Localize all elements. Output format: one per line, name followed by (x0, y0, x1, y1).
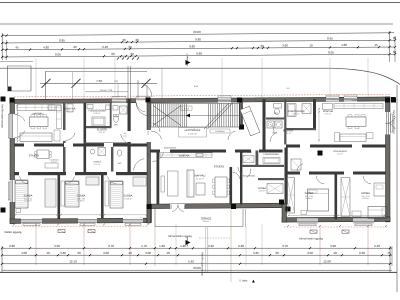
svg-text:Korrlátpa: Korrlátpa (216, 130, 226, 133)
kitchen counter left (17, 105, 61, 111)
bottom ticks A (1, 247, 3, 249)
wc2 fixtures (117, 150, 122, 156)
svg-text:9.89 m²: 9.89 m² (259, 190, 266, 193)
bottom left terminator (1, 246, 3, 272)
svg-text:3.00: 3.00 (145, 251, 151, 255)
wardrobe col room3 (105, 181, 109, 206)
door arcs centre rooms (247, 169, 251, 178)
interior dim line right bedrooms (288, 215, 385, 217)
svg-text:NAPPALI: NAPPALI (195, 175, 206, 178)
pillar block (286, 207, 291, 212)
wall bedroom part 1 left (58, 175, 61, 219)
kitchen counter centre (160, 153, 212, 157)
svg-text:9.80: 9.80 (189, 44, 195, 48)
svg-text:30: 30 (128, 45, 132, 49)
dim ticks row1 (1, 34, 3, 36)
svg-text:77.0866: 77.0866 (239, 280, 248, 283)
svg-text:4.20 m²: 4.20 m² (337, 152, 344, 155)
klima unit (58, 230, 65, 233)
svg-text:45: 45 (374, 43, 378, 47)
svg-text:ZÁROLÓ: ZÁROLÓ (242, 151, 252, 154)
wc fixture left (114, 116, 119, 122)
wall bedroom part 2 left (101, 175, 104, 219)
interior dim vertical left living (17, 105, 19, 142)
boiler box (106, 105, 111, 110)
wall tusolo-wc divider (111, 145, 113, 172)
forecourt outline (46, 72, 148, 100)
dim ticks row4 (1, 56, 3, 58)
svg-text:beltéri egység: beltéri egység (5, 231, 22, 234)
wc right room (274, 104, 282, 109)
dim row 3 line (2, 47, 394, 50)
sofa right bottom (340, 134, 366, 142)
small room fixtures (267, 184, 283, 194)
svg-text:30: 30 (275, 251, 279, 255)
svg-text:ÉTKEZŐ: ÉTKEZŐ (29, 154, 39, 158)
svg-text:29.00: 29.00 (193, 266, 201, 270)
wall join centre-right (282, 203, 287, 222)
svg-text:3.65: 3.65 (253, 251, 259, 255)
svg-text:3.60: 3.60 (60, 251, 66, 255)
svg-text:WC: WC (114, 124, 118, 127)
terrace double door (170, 204, 185, 210)
wall right unit corridor (286, 172, 386, 175)
svg-text:Klíma kültéri egység: Klíma kültéri egység (201, 252, 204, 276)
wall join left-centre (147, 204, 152, 223)
window left wall bedroom (10, 180, 16, 202)
svg-text:3.90: 3.90 (330, 244, 336, 248)
bottom dim row C (2, 263, 392, 265)
terrace extension verticals (205, 227, 207, 272)
entry gate posts (127, 66, 129, 99)
wardrobe room1 (45, 179, 56, 207)
kitchen sink left (48, 105, 55, 110)
stub line left (0, 61, 33, 63)
svg-text:ELŐTÉR: ELŐTÉR (97, 128, 107, 132)
french door right wall (385, 112, 390, 135)
svg-text:1.70: 1.70 (141, 244, 147, 248)
pillar block (385, 98, 390, 103)
svg-text:2.80: 2.80 (9, 244, 15, 248)
wall corridor left unit (15, 172, 148, 175)
dim ticks row3 (1, 49, 3, 51)
svg-text:8.05: 8.05 (328, 51, 334, 55)
outer wall bottom centre (recessed) (147, 203, 284, 208)
wardrobe col room2 (61, 181, 65, 206)
dim row 4 line (2, 54, 394, 57)
svg-text:9.60: 9.60 (196, 51, 202, 55)
wall hall left unit (128, 99, 131, 172)
svg-text:10: 10 (46, 251, 50, 255)
pillar block (1, 208, 6, 213)
wall tusolo top (84, 143, 129, 145)
svg-text:3.70: 3.70 (108, 244, 114, 248)
wall eloter west (63, 103, 66, 172)
svg-text:45: 45 (15, 46, 19, 50)
bench room2 right (352, 211, 361, 217)
svg-text:1.20: 1.20 (180, 244, 186, 248)
svg-text:SZOBA: SZOBA (361, 192, 370, 195)
sofa centre (168, 171, 179, 196)
svg-text:3.90: 3.90 (54, 244, 60, 248)
utility line top red (14, 94, 390, 97)
forecourt note (85, 91, 128, 93)
svg-text:LÉPCSŐHÁZ: LÉPCSŐHÁZ (185, 128, 201, 132)
door gaps centre horiz (160, 149, 170, 153)
kitchen counter right (334, 104, 383, 109)
outer wall left (10, 100, 15, 224)
svg-text:8.05: 8.05 (55, 52, 61, 56)
dim right terminators (389, 31, 391, 62)
wall party second leaf (157, 151, 160, 205)
door gap party wall (147, 130, 152, 142)
svg-text:Klíma beltéri egység: Klíma beltéri egység (168, 235, 192, 238)
svg-text:1.19: 1.19 (184, 107, 189, 110)
dim left terminator (1, 33, 3, 60)
svg-text:2.22: 2.22 (208, 244, 214, 248)
bed room1 left (15, 180, 28, 208)
svg-text:SZOBA: SZOBA (258, 187, 267, 190)
svg-text:14.62 m²: 14.62 m² (188, 133, 197, 136)
site boundary with kerb curve (0, 68, 400, 84)
klima unit (342, 230, 349, 233)
svg-text:3.70: 3.70 (282, 244, 288, 248)
svg-text:WC: WC (118, 162, 122, 165)
wall small rooms right of living (240, 153, 242, 205)
right boundary vertical (396, 85, 398, 292)
entry gate swing (138, 83, 152, 97)
klima unit right top (391, 97, 396, 102)
bottom dim row A (2, 247, 392, 249)
svg-text:12.06 m²: 12.06 m² (362, 197, 370, 200)
utility line bottom left (red dashed) (12, 225, 148, 227)
wall stair left (147, 103, 151, 223)
svg-text:ÉTKEZŐ: ÉTKEZŐ (214, 165, 224, 169)
svg-text:SZOBA: SZOBA (124, 195, 133, 198)
svg-text:KÖZLEKEDŐ: KÖZLEKEDŐ (164, 146, 177, 149)
outer wall top (10, 97, 390, 104)
bed room2 right (368, 207, 387, 219)
svg-text:Klíma beltéri egység: Klíma beltéri egység (299, 237, 323, 240)
svg-text:10: 10 (309, 43, 313, 47)
wall zarolo-bath (256, 151, 259, 168)
svg-text:3.00: 3.00 (103, 251, 109, 255)
tilted furniture (240, 106, 260, 136)
svg-text:12.68: 12.68 (323, 260, 331, 264)
window top wall (344, 97, 357, 102)
gardrob fixtures (243, 156, 254, 163)
interior dim vertical right living (318, 108, 320, 142)
window top wall (326, 97, 339, 102)
svg-text:30: 30 (135, 38, 139, 42)
svg-text:KÖZLEKEDŐ: KÖZLEKEDŐ (333, 150, 347, 153)
door gap eloter (63, 130, 67, 141)
svg-text:12.10: 12.10 (69, 260, 77, 264)
svg-text:4.80: 4.80 (43, 45, 49, 49)
wall entry right unit (263, 99, 266, 150)
svg-text:SZOBA: SZOBA (24, 195, 33, 198)
svg-text:60: 60 (111, 52, 115, 56)
wall right unit horizontal (286, 145, 386, 148)
svg-text:1.60: 1.60 (159, 244, 165, 248)
door arcs corridor left (20, 176, 28, 183)
main entrance door (136, 98, 150, 103)
door gaps corridor left (19, 172, 28, 176)
svg-text:3.50 m²: 3.50 m² (94, 163, 100, 166)
property line top (0, 2, 400, 4)
wall etkezo-kozl (230, 167, 233, 205)
utility line bottom right (red dashed) (284, 226, 388, 228)
bottom right terminator (389, 246, 391, 272)
svg-text:7.50: 7.50 (96, 79, 102, 83)
svg-text:KONYHA: KONYHA (65, 107, 76, 110)
wall wc bottom right (266, 118, 284, 120)
wall bottom tick marks (13, 224, 15, 226)
window top wall (112, 98, 126, 103)
extension verticals bottom (35, 224, 37, 265)
entry door arcs centre (153, 123, 160, 132)
wardrobe X room1 right (287, 178, 295, 214)
pillar block (318, 151, 323, 156)
wall bath right side (313, 99, 316, 128)
svg-text:Klíma kültéri egység: Klíma kültéri egység (1, 104, 4, 128)
wall stair right (240, 99, 243, 127)
pillar block (231, 204, 236, 209)
svg-text:10: 10 (333, 251, 337, 255)
wall party right (285, 148, 288, 205)
setback line (0, 23, 393, 25)
svg-text:10: 10 (128, 251, 132, 255)
staircase (151, 104, 240, 128)
svg-text:12.06 m²: 12.06 m² (24, 200, 32, 203)
wall left unit horizontal (15, 144, 148, 147)
etkezo table left (37, 150, 49, 159)
bath right fixtures (288, 104, 297, 117)
door arcs right corridor (316, 176, 324, 184)
wall bedroom part right (335, 175, 338, 220)
kitchen sink centre (196, 153, 203, 157)
svg-text:4.80: 4.80 (341, 43, 347, 47)
window bottom wall left (78, 218, 97, 224)
svg-text:10: 10 (166, 251, 170, 255)
svg-text:Klíma kültéri egység: Klíma kültéri egység (393, 110, 396, 134)
bed room2 left (65, 181, 79, 207)
bed room1 right (308, 189, 329, 211)
nightstand room1 (16, 209, 21, 213)
forecourt extension lines (72, 72, 74, 100)
nightstand room1 right (301, 211, 307, 215)
svg-text:9.80: 9.80 (195, 37, 201, 41)
dim row 2 line (2, 40, 394, 43)
french door left wall (10, 114, 16, 138)
wall szoba top centre-right (258, 178, 284, 180)
wall bath right unit (284, 99, 286, 145)
svg-text:KONYHA: KONYHA (179, 155, 190, 158)
hall door arcs left (121, 134, 132, 144)
window bottom wall left (123, 218, 143, 224)
svg-text:ELŐTÉR: ELŐTÉR (283, 129, 293, 133)
site boundary bottom (0, 271, 397, 273)
wall bath-wc divider (110, 103, 112, 127)
outer wall bottom left unit (10, 218, 150, 223)
gardrob closet right (291, 159, 301, 170)
dining table right (346, 117, 366, 127)
svg-text:30: 30 (77, 251, 81, 255)
svg-text:3.40: 3.40 (102, 45, 108, 49)
entry door swing (136, 102, 149, 115)
wall bath right bottom (286, 128, 316, 130)
wardrobe room2 (86, 177, 99, 185)
wardrobe X room2 right (341, 178, 350, 217)
section marker S1 (186, 60, 191, 65)
door gaps right corridor (300, 171, 309, 175)
svg-text:8.85: 8.85 (59, 38, 65, 42)
pillar block (10, 98, 15, 103)
svg-text:20: 20 (73, 45, 77, 49)
dining table left (30, 117, 49, 127)
sideboard left (45, 163, 58, 168)
stair guide verticals (146, 85, 148, 99)
svg-text:2.40: 2.40 (374, 244, 380, 248)
svg-text:29.00: 29.00 (193, 30, 201, 34)
outer wall right (386, 97, 391, 222)
dining table centre (215, 177, 227, 197)
dim ticks below (117, 57, 119, 59)
tusolo fixtures (90, 149, 95, 154)
extension verticals top (35, 58, 37, 99)
dim row 1 line (2, 33, 394, 36)
bath tub left (92, 117, 105, 126)
bottom ticks B (1, 254, 3, 256)
door arcs right entry (270, 133, 277, 142)
wall centre horizontal (hall-living) (151, 150, 283, 153)
door gap hall wall (127, 131, 131, 142)
svg-text:4.11 m²: 4.11 m² (99, 131, 106, 134)
handrail note (210, 129, 230, 133)
sofa left (20, 133, 52, 142)
svg-text:FÜRDŐSZOBA: FÜRDŐSZOBA (263, 153, 279, 156)
tv centre (161, 176, 165, 192)
svg-text:11.88 m²: 11.88 m² (305, 197, 313, 200)
bottom dim row D (2, 269, 392, 271)
svg-text:4.00: 4.00 (21, 251, 27, 255)
svg-text:9.88 m²: 9.88 m² (202, 220, 209, 223)
pillar block (237, 98, 242, 103)
svg-text:FÜRDŐSZOBA: FÜRDŐSZOBA (88, 109, 106, 113)
pillar block (279, 200, 284, 205)
hazt room boxes (267, 121, 274, 128)
svg-text:3.50: 3.50 (307, 251, 313, 255)
forecourt dim line (40, 82, 157, 84)
svg-text:NAPPALI-ÉTKEZŐ: NAPPALI-ÉTKEZŐ (352, 99, 369, 102)
door gap left horiz wall (24, 143, 34, 147)
svg-text:SZOBA: SZOBA (305, 192, 314, 195)
svg-text:SZOBA: SZOBA (77, 195, 86, 198)
bottom dim row B (2, 254, 392, 256)
wall bath bottom (86, 126, 112, 128)
window bottom wall left (21, 218, 42, 224)
svg-text:NAPPALI: NAPPALI (33, 113, 44, 116)
section marker S1 bottom (186, 240, 191, 245)
wall bath bottom centre-right (242, 165, 284, 167)
pillar block (391, 98, 396, 103)
door gap right horiz wall (300, 144, 310, 148)
svg-text:11.88 m²: 11.88 m² (77, 200, 85, 203)
fridge column left (57, 106, 62, 129)
klima unit (88, 230, 95, 233)
pillar block (147, 204, 152, 209)
dim ticks row2 (1, 42, 3, 44)
svg-text:3.60: 3.60 (282, 44, 288, 48)
svg-text:1.50: 1.50 (147, 153, 150, 157)
svg-text:KÖZLEKEDŐ: KÖZLEKEDŐ (243, 174, 256, 177)
wall bath left unit (84, 103, 87, 172)
stair label (179, 128, 207, 138)
svg-text:TERASZ: TERASZ (201, 217, 212, 220)
shower left (120, 106, 128, 114)
parking bay outline (8, 66, 32, 91)
svg-text:2.30: 2.30 (359, 251, 365, 255)
svg-text:12.06 m²: 12.06 m² (124, 197, 132, 200)
svg-text:2.28: 2.28 (238, 244, 244, 248)
svg-text:5.62: 5.62 (188, 260, 194, 264)
window bottom wall right (353, 219, 374, 225)
outer wall bottom right unit (282, 217, 390, 222)
svg-text:6.30 m²: 6.30 m² (93, 112, 100, 115)
svg-text:8.95: 8.95 (327, 37, 333, 41)
svg-text:Terasz 7.06: Terasz 7.06 (100, 89, 113, 92)
pillar block (146, 98, 151, 103)
pillar block (1, 97, 6, 102)
pillar block (239, 125, 244, 130)
wc right (275, 108, 280, 114)
window top wall (218, 98, 231, 103)
terrace outline (155, 209, 243, 227)
bed room3 left (110, 181, 123, 208)
coffee table centre (196, 183, 205, 195)
door arc living NW (153, 152, 164, 161)
hall cabinet left (67, 104, 73, 112)
svg-text:8.91 m²: 8.91 m² (325, 112, 332, 115)
interior dim line left bedrooms (15, 214, 147, 216)
wardrobe room3 (133, 177, 146, 186)
window bottom wall right (297, 219, 318, 225)
svg-text:24.11 m²: 24.11 m² (196, 177, 204, 180)
desk room2 right (374, 183, 386, 196)
klima unit (310, 230, 317, 233)
svg-text:2.10: 2.10 (123, 135, 126, 138)
svg-text:KONYHA: KONYHA (323, 110, 334, 113)
bottom ticks C (1, 263, 3, 265)
parking klima block (8, 87, 12, 92)
svg-text:4.11 m²: 4.11 m² (285, 132, 292, 135)
